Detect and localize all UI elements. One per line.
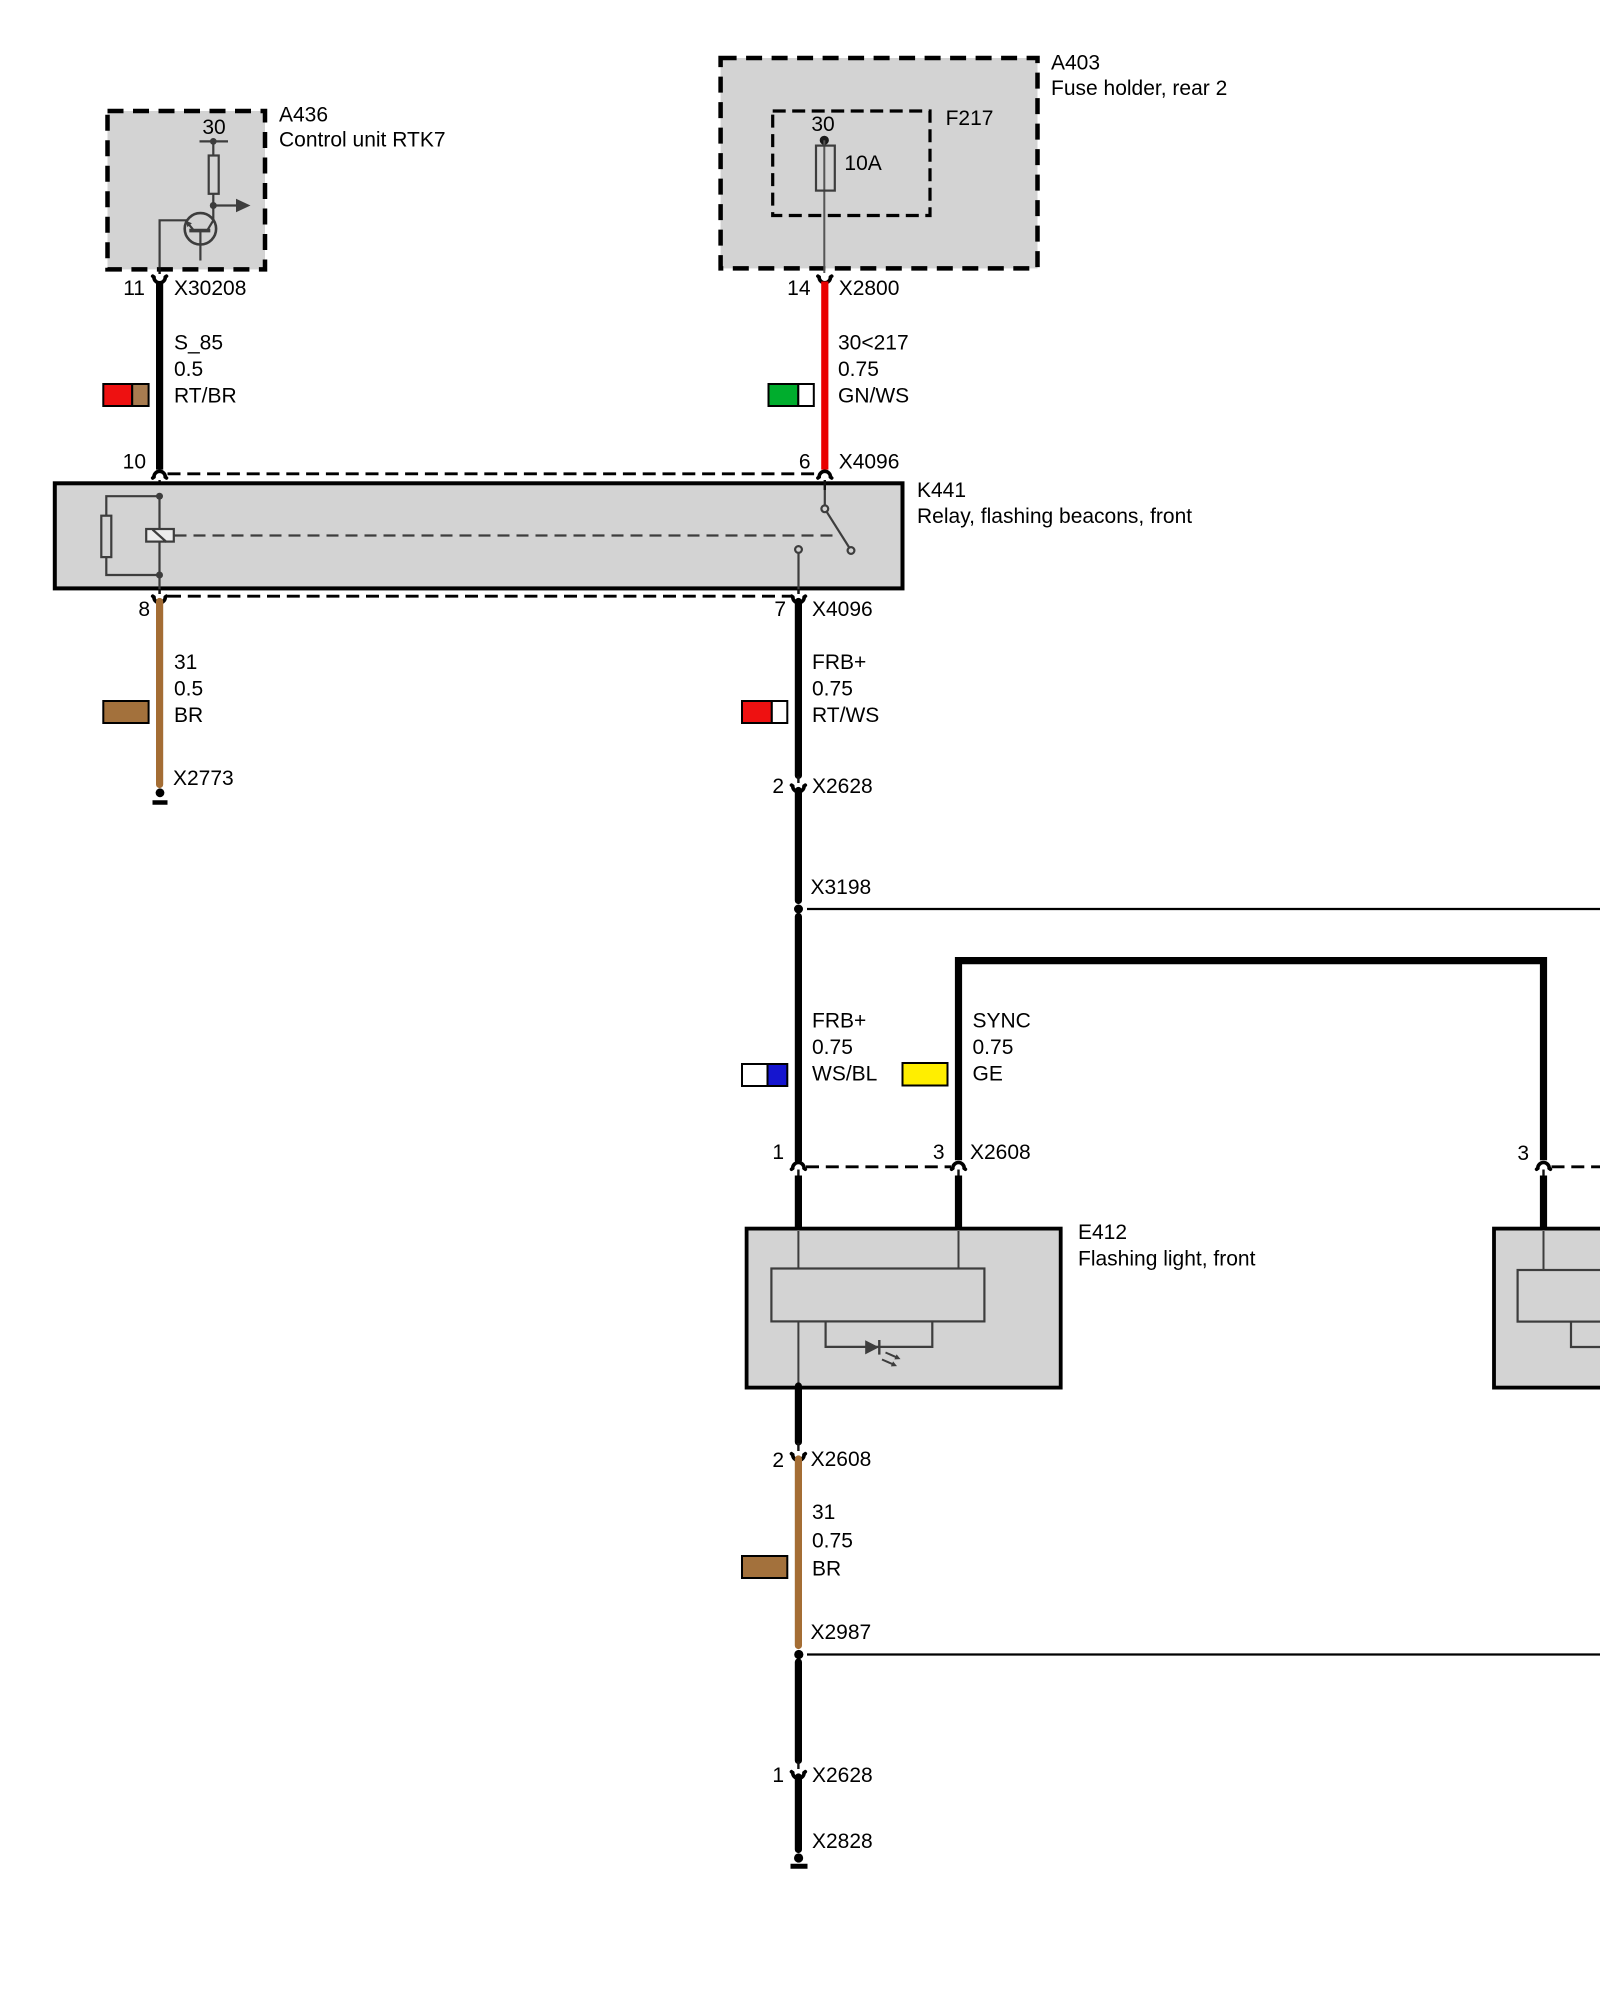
svg-text:SYNC: SYNC (973, 1010, 1031, 1033)
svg-text:1: 1 (772, 1141, 784, 1164)
connector X2608 (2) (772, 1443, 871, 1472)
pin 14 (787, 276, 832, 300)
svg-text:2: 2 (772, 1449, 784, 1472)
wire 31 BR brown (156, 602, 163, 785)
svg-text:31: 31 (812, 1501, 835, 1524)
fuse lead wire (823, 140, 825, 273)
label A436 (279, 104, 446, 152)
wire pin3 into E412 (955, 1176, 962, 1232)
svg-text:0.5: 0.5 (174, 358, 203, 381)
svg-text:0.75: 0.75 (838, 358, 879, 381)
E412 LED bracket (826, 1321, 933, 1347)
flashing light E412 box (747, 1229, 1061, 1388)
svg-text:X2800: X2800 (839, 277, 900, 300)
label wire 31 0.5 BR (174, 651, 203, 727)
E412 internal module rect (771, 1269, 984, 1322)
svg-text:Control unit RTK7: Control unit RTK7 (279, 129, 446, 152)
pin 7 (774, 589, 805, 621)
connector X2628 (1) (772, 1762, 872, 1788)
connector X2608 pin 3 (933, 1141, 1031, 1176)
flashing light E412 box right (partial) (1494, 1229, 1600, 1388)
label wire 31 0.75 BR (812, 1501, 853, 1581)
pin 10 (123, 451, 167, 495)
svg-text:0.5: 0.5 (174, 677, 203, 700)
wire pin3 into right E412 (1540, 1176, 1547, 1232)
label wire 30<217 0.75 GN/WS (838, 331, 909, 407)
relay coil K441 (146, 529, 174, 542)
svg-text:Flashing light, front: Flashing light, front (1078, 1248, 1256, 1271)
colour code WS/BL (742, 1064, 787, 1086)
svg-text:A436: A436 (279, 104, 328, 127)
right E412 internal module rect (1518, 1270, 1600, 1322)
resistor (K441) (101, 516, 111, 557)
connector dashed line X2608 (806, 1165, 951, 1168)
svg-text:X3198: X3198 (811, 876, 872, 899)
colour code BR (103, 701, 148, 723)
svg-text:1: 1 (772, 1764, 784, 1787)
connector dashed line X4096 bottom (168, 595, 791, 598)
svg-text:F217: F217 (946, 107, 994, 130)
svg-text:Relay, flashing beacons, front: Relay, flashing beacons, front (917, 505, 1192, 528)
wire to pin 7 (797, 553, 799, 594)
node X2987 (794, 1621, 1600, 1659)
terminal 30 (F217) (811, 113, 834, 145)
svg-text:X2608: X2608 (811, 1448, 872, 1471)
connector X2628 (2) (772, 775, 872, 798)
E412 internal wire pin3 (958, 1231, 960, 1270)
svg-text:2: 2 (772, 775, 784, 798)
svg-text:7: 7 (774, 598, 786, 621)
connector X2608 pin 1 (772, 1141, 805, 1176)
svg-text:10: 10 (123, 451, 146, 474)
svg-text:RT/BR: RT/BR (174, 385, 237, 408)
node: collector junction (210, 202, 217, 209)
wire (795, 791, 802, 901)
svg-text:3: 3 (933, 1141, 945, 1164)
relay left loop wire (106, 496, 159, 517)
wire 30<217 (GN/WS) red (821, 282, 828, 470)
svg-text:BR: BR (812, 1558, 841, 1581)
svg-text:X2628: X2628 (812, 775, 873, 798)
svg-text:GN/WS: GN/WS (838, 385, 909, 408)
label K441 (917, 479, 1192, 528)
label A403 (1051, 52, 1227, 101)
transistor Q (A436) (185, 207, 216, 261)
fuse F217 box (773, 111, 930, 216)
control unit A436 box (108, 111, 266, 269)
svg-text:X2608: X2608 (970, 1141, 1031, 1164)
svg-text:X30208: X30208 (174, 277, 246, 300)
pin 8 (138, 589, 166, 621)
colour code RT/BR (103, 384, 148, 406)
fuse holder A403 box (721, 58, 1038, 268)
ground X2773 (153, 788, 168, 802)
colour code GN/WS (769, 384, 814, 406)
svg-text:K441: K441 (917, 479, 966, 502)
wire: pin 11 internal base lead (160, 220, 187, 267)
svg-text:A403: A403 (1051, 52, 1100, 75)
label wire FRB+ 0.75 RT/WS (812, 651, 879, 727)
output arrow (213, 199, 250, 212)
label wire S_85 0.5 RT/BR (174, 331, 237, 407)
svg-text:FRB+: FRB+ (812, 651, 866, 674)
svg-text:FRB+: FRB+ (812, 1010, 866, 1033)
svg-text:X2628: X2628 (812, 1764, 873, 1787)
svg-text:WS/BL: WS/BL (812, 1063, 877, 1086)
connector dashed line X2608 right (1552, 1165, 1600, 1168)
right E412 internal wire (1543, 1231, 1545, 1272)
node (156, 572, 163, 579)
svg-text:X4096: X4096 (812, 598, 873, 621)
wire S_85 (RT/BR) (156, 282, 163, 470)
relay switch contact wire from pin 6 (824, 483, 826, 505)
wire pin1 into E412 (795, 1176, 802, 1232)
wire FRB+ trunk (795, 917, 802, 1161)
svg-text:6: 6 (799, 451, 811, 474)
colour code BR lower (742, 1556, 787, 1578)
svg-text:30<217: 30<217 (838, 331, 909, 354)
label wire SYNC 0.75 GE (973, 1010, 1031, 1086)
svg-text:31: 31 (174, 651, 197, 674)
svg-text:E412: E412 (1078, 1221, 1127, 1244)
pin 6 (799, 451, 832, 491)
terminal 30 (A436) (200, 116, 229, 145)
LED (E412) (865, 1340, 900, 1366)
colour code GE (903, 1063, 948, 1086)
svg-text:X2773: X2773 (173, 767, 234, 790)
label E412 (1078, 1221, 1256, 1271)
node (156, 493, 163, 500)
svg-text:0.75: 0.75 (812, 1036, 853, 1059)
wire FRB+ (RT/WS) (795, 602, 802, 776)
svg-text:0.75: 0.75 (973, 1036, 1014, 1059)
svg-text:S_85: S_85 (174, 331, 223, 354)
pin 11 (123, 268, 166, 300)
svg-text:10A: 10A (844, 152, 881, 175)
svg-text:0.75: 0.75 (812, 677, 853, 700)
svg-text:RT/WS: RT/WS (812, 704, 879, 727)
connector dashed line X4096 top (168, 472, 818, 475)
svg-text:X4096: X4096 (839, 451, 900, 474)
wire 31 BR brown lower (795, 1459, 802, 1646)
wire below X2987 (795, 1662, 802, 1761)
E412 internal wire pin1 (797, 1231, 799, 1385)
svg-text:30: 30 (811, 113, 834, 136)
label wire FRB+ 0.75 WS/BL (812, 1010, 877, 1086)
svg-text:X2828: X2828 (812, 1830, 873, 1853)
colour code RT/WS (742, 701, 787, 723)
svg-text:14: 14 (787, 277, 811, 300)
right E412 bracket (1571, 1322, 1600, 1347)
wire SYNC loop (959, 961, 1544, 1161)
contact circle top (821, 505, 828, 512)
connector X2608 pin 3 right (1517, 1142, 1550, 1176)
relay internal dashed link (175, 534, 839, 536)
wire below E412 (795, 1386, 802, 1442)
svg-text:3: 3 (1517, 1142, 1529, 1165)
svg-text:0.75: 0.75 (812, 1530, 853, 1553)
svg-text:8: 8 (138, 598, 150, 621)
svg-text:30: 30 (202, 116, 225, 139)
relay K441 box (55, 483, 903, 588)
wire (106, 557, 159, 575)
svg-text:11: 11 (123, 277, 145, 300)
svg-text:GE: GE (973, 1063, 1003, 1086)
resistor (A436) (209, 141, 219, 207)
contact circle lower (795, 546, 802, 553)
ground X2828 (791, 1853, 808, 1866)
fuse F217 10A (816, 146, 882, 191)
svg-text:Fuse holder, rear 2: Fuse holder, rear 2 (1051, 77, 1227, 100)
relay coil branch wire (158, 494, 160, 594)
contact circle end (848, 547, 855, 554)
wire to X2828 (795, 1777, 802, 1850)
node X3198 (794, 876, 1600, 914)
svg-text:X2987: X2987 (811, 1621, 872, 1644)
switch blade (827, 512, 850, 548)
svg-text:BR: BR (174, 704, 203, 727)
